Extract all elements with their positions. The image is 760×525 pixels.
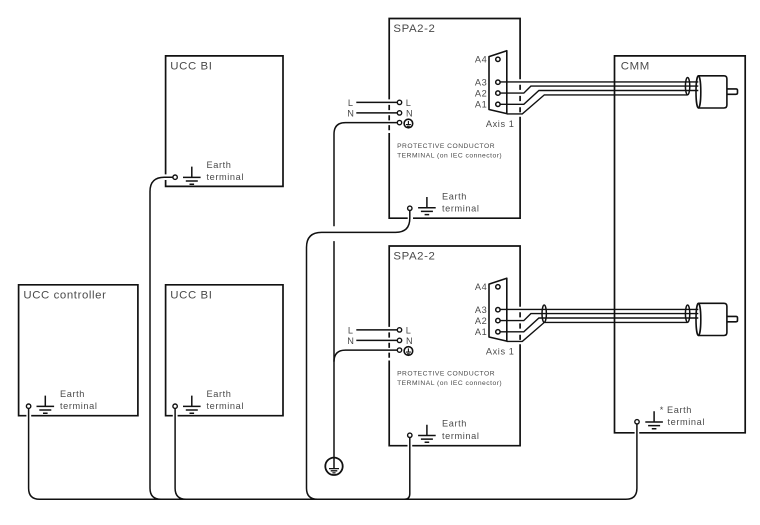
IEC earth terminal (SPA2-2 bottom): [397, 347, 412, 356]
wire shield (bottom cable): [507, 322, 688, 341]
svg-text:UCC BI: UCC BI: [170, 61, 212, 73]
svg-text:L: L: [406, 98, 412, 108]
svg-text:N: N: [347, 336, 354, 346]
svg-text:CMM: CMM: [621, 61, 650, 73]
svg-text:L: L: [348, 98, 354, 108]
motor M2 (bottom): [696, 303, 738, 335]
svg-text:terminal: terminal: [207, 172, 244, 182]
wire A3 (top cable): [500, 81, 698, 83]
svg-text:terminal: terminal: [60, 401, 97, 411]
cable clamp ellipse (bottom right): [685, 305, 689, 322]
earth terminal T6 (CMM): [635, 405, 705, 429]
wire IEC earth SPA2-2 bottom: [334, 350, 397, 362]
wire A2 (bottom cable): [500, 314, 698, 321]
protective earth symbol (circled earth): [325, 458, 342, 475]
L terminal (SPA2-2 bottom): [348, 325, 412, 335]
svg-text:terminal: terminal: [442, 204, 479, 214]
IEC earth terminal (SPA2-2 top): [397, 119, 412, 128]
svg-text:Earth: Earth: [60, 389, 85, 399]
N terminal (SPA2-2 bottom): [347, 336, 413, 346]
wire IEC earth vertical (below crossing): [333, 241, 335, 468]
svg-text:terminal: terminal: [668, 417, 705, 427]
wire ground bus (UCC controller to CMM earth): [29, 408, 637, 499]
svg-text:SPA2-2: SPA2-2: [393, 23, 435, 35]
svg-text:Earth: Earth: [442, 419, 467, 429]
wire A2 (top cable): [500, 86, 698, 93]
wire earth UCC BI top to bus: [150, 177, 173, 499]
svg-text:A1: A1: [475, 100, 487, 110]
wire earth SPA2-2 top terminal to bus: [307, 211, 410, 500]
svg-text:Axis 1: Axis 1: [486, 346, 515, 356]
earth terminal T1 (UCC BI top): [173, 160, 244, 184]
earth terminal T4 (SPA2-2 top): [408, 192, 480, 215]
svg-text:A2: A2: [475, 89, 487, 99]
svg-text:Earth: Earth: [442, 192, 467, 202]
box SPA2-2 (top): [389, 19, 520, 219]
cable clamp ellipse (top): [685, 78, 689, 95]
earth terminal T3 (UCC BI bottom): [173, 389, 244, 413]
L terminal (SPA2-2 top): [348, 98, 412, 108]
svg-text:Earth: Earth: [207, 160, 232, 170]
D-connector Axis 1 (SPA2-2 bottom): [475, 278, 515, 356]
svg-text:A4: A4: [475, 55, 487, 65]
svg-text:SPA2-2: SPA2-2: [393, 251, 435, 263]
svg-text:A3: A3: [475, 78, 487, 88]
svg-text:A1: A1: [475, 327, 487, 337]
svg-text:PROTECTIVE CONDUCTOR: PROTECTIVE CONDUCTOR: [397, 370, 495, 377]
wire A1 (top cable): [500, 91, 698, 105]
wire earth SPA2-2 bottom terminal to bus: [404, 438, 410, 500]
wire earth UCC BI bottom to bus: [175, 408, 186, 499]
box SPA2-2 (bottom): [389, 246, 520, 446]
svg-text:N: N: [347, 108, 354, 118]
svg-text:N: N: [406, 336, 413, 346]
box UCC BI (top): [166, 56, 283, 187]
svg-text:PROTECTIVE CONDUCTOR: PROTECTIVE CONDUCTOR: [397, 143, 495, 150]
earth terminal T5 (SPA2-2 bottom): [408, 419, 480, 443]
svg-text:N: N: [406, 108, 413, 118]
svg-text:A4: A4: [475, 282, 487, 292]
svg-text:L: L: [406, 325, 412, 335]
svg-text:TERMINAL (on IEC connector): TERMINAL (on IEC connector): [397, 380, 502, 387]
motor M1 (top): [696, 76, 738, 108]
svg-text:Axis 1: Axis 1: [486, 119, 515, 129]
box CMM: [615, 56, 746, 433]
svg-text:UCC BI: UCC BI: [170, 290, 212, 302]
cable gland ellipse (bottom left): [542, 305, 546, 322]
wire shield (top cable): [507, 95, 688, 114]
svg-text:Earth: Earth: [207, 389, 232, 399]
svg-text:A3: A3: [475, 305, 487, 315]
wire A1 (bottom cable): [500, 318, 698, 332]
box UCC controller: [19, 285, 138, 416]
svg-text:TERMINAL (on IEC connector): TERMINAL (on IEC connector): [397, 152, 502, 159]
earth terminal T2 (UCC controller): [26, 389, 97, 413]
N terminal (SPA2-2 top): [347, 108, 413, 118]
box UCC BI (bottom): [166, 285, 283, 416]
D-connector Axis 1 (SPA2-2 top): [475, 51, 515, 129]
svg-text:terminal: terminal: [207, 401, 244, 411]
svg-text:* Earth: * Earth: [660, 405, 692, 415]
svg-text:L: L: [348, 325, 354, 335]
svg-text:A2: A2: [475, 316, 487, 326]
wire IEC earth SPA2-2 top: [334, 123, 397, 227]
wire A3 (bottom cable): [500, 308, 698, 310]
svg-text:UCC controller: UCC controller: [23, 290, 106, 302]
svg-text:terminal: terminal: [442, 431, 479, 441]
